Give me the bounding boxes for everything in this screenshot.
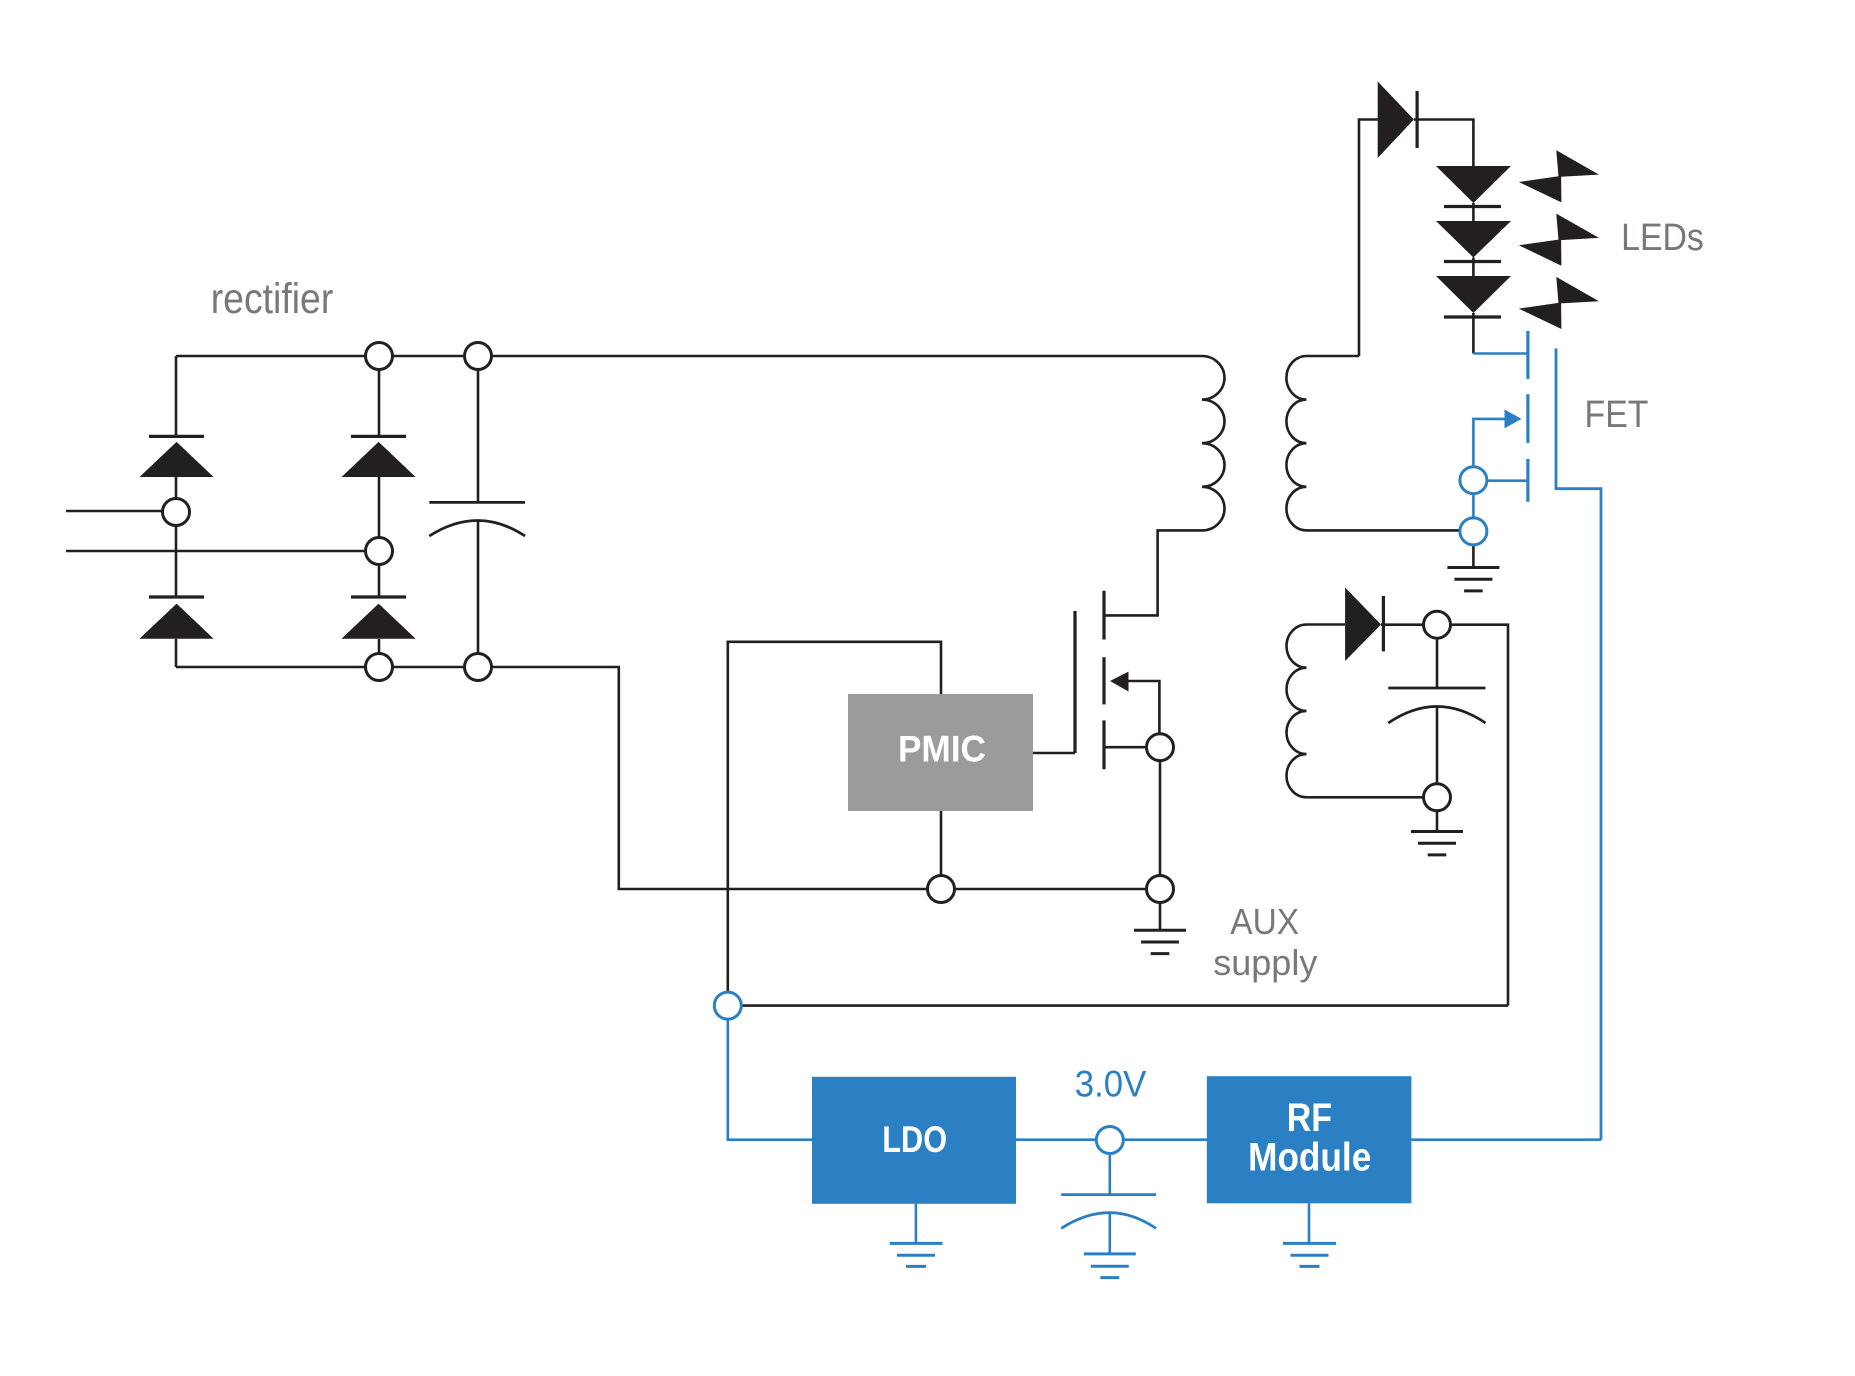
wire AC input line 1 (66, 510, 176, 513)
wire FET source node to ground (1472, 545, 1475, 568)
svg-text:supply: supply (1213, 942, 1317, 983)
diode D5 (LED rail rectifier) (1378, 82, 1417, 159)
wire MOSFET source to ground rail (1159, 761, 1162, 929)
capacitor C1 (bulk, after rectifier) (429, 502, 525, 536)
wire RF module to FET gate (blue) (1411, 1138, 1601, 1141)
node (top rail B) (465, 343, 492, 370)
FET Q2 source tick (1487, 479, 1528, 482)
wire left column mid (175, 477, 178, 597)
node (bottom rail A) (366, 654, 393, 681)
wire secondary top to diode (1359, 120, 1378, 357)
node (3.0V, blue) (1096, 1127, 1123, 1154)
node (AC input middle) (366, 538, 393, 565)
LED LED1 (1436, 166, 1511, 207)
LED LED3 (1436, 276, 1511, 317)
diode D4 (bridge bottom-right) (342, 597, 416, 639)
node (MOSFET source) (1147, 734, 1174, 761)
transistor Q1 source tick (1104, 746, 1148, 749)
diode D3 (bridge bottom-left) (140, 597, 214, 639)
wire blue node to LDO input (728, 1006, 812, 1140)
FET Q2 body arrow (1473, 410, 1521, 468)
wire top rail + primary winding L1 + drain lead (176, 356, 1225, 615)
wire rectifier bottom rail to PMIC ground rail (176, 667, 1160, 889)
wire diode D5 cathode to LED string (1414, 120, 1474, 167)
diode D2 (bridge top-right) (342, 436, 416, 477)
svg-text:FET: FET (1585, 392, 1649, 435)
transistor Q1 body arrow (1110, 672, 1159, 734)
FET Q2 channel segments (1526, 331, 1529, 502)
LED2 emission arrows (1519, 214, 1599, 266)
ground (AUX cap) (1411, 832, 1463, 855)
ground (3.0V cap, blue) (1084, 1254, 1136, 1278)
ground (FET source) (1447, 568, 1499, 591)
wire LDO output to RF module (blue) (1016, 1138, 1207, 1141)
node (bottom rail B) (465, 654, 492, 681)
node (AUX to LDO, blue) (714, 992, 741, 1019)
ground (RF module, blue) (1283, 1203, 1336, 1266)
wire AUX cap bottom to node (1436, 707, 1439, 797)
wire middle column mid (378, 477, 381, 597)
node (FET source, blue) (1460, 518, 1487, 545)
LDO box U2 (812, 1077, 1016, 1204)
diode D1 (bridge top-left) (140, 436, 214, 477)
LED3 emission arrows (1519, 277, 1599, 329)
wire AC input line 2 (66, 550, 379, 553)
node (FET gate, blue) (1460, 467, 1487, 494)
wire between FET source nodes (blue) (1472, 480, 1475, 531)
wire rectifier left column (175, 356, 178, 436)
svg-text:RF: RF (1287, 1094, 1332, 1139)
diode D6 (AUX rectifier) (1345, 588, 1383, 662)
svg-text:PMIC: PMIC (898, 728, 986, 770)
wire LED3 to FET drain (1472, 313, 1475, 354)
svg-text:3.0V: 3.0V (1075, 1063, 1147, 1104)
capacitor C3 (3.0V, blue) (1061, 1154, 1156, 1254)
LED LED2 (1436, 221, 1511, 262)
wire AUX bottom node to ground (1436, 811, 1439, 832)
wire PMIC gate drive (1033, 752, 1075, 755)
wire secondary winding L2 (1286, 356, 1460, 530)
capacitor C2 (AUX) (1388, 688, 1485, 723)
wire AUX supply output rail (728, 1004, 1508, 1007)
RF Module label (1248, 1094, 1371, 1179)
wire AUX diode cathode to AUX rail (1381, 625, 1508, 1006)
svg-text:rectifier: rectifier (211, 274, 334, 322)
node (AUX diode out) (1424, 611, 1451, 638)
wire LED1-LED2 (1472, 203, 1475, 221)
node (AUX winding bottom) (1424, 784, 1451, 811)
LED1 emission arrows (1519, 150, 1599, 202)
svg-text:LEDs: LEDs (1621, 215, 1704, 258)
wire AUX cap top (1436, 639, 1439, 688)
wire left column bottom (175, 639, 178, 667)
svg-text:LDO: LDO (882, 1119, 947, 1160)
node (PMIC bottom) (928, 876, 955, 903)
node (AC input left) (163, 499, 190, 526)
node (source ground rail) (1147, 876, 1174, 903)
FET Q2 gate bar and gate lead to RF module (1556, 348, 1601, 1139)
PMIC box U1 (848, 694, 1033, 811)
wire LED2-LED3 (1472, 258, 1475, 277)
wire middle column bottom (378, 639, 381, 667)
FET Q2 (blue) drain connector (1473, 352, 1528, 355)
wire AUX winding L3 (1287, 625, 1424, 798)
transistor Q1 channel segments (1102, 591, 1105, 770)
svg-text:Module: Module (1248, 1134, 1371, 1179)
wire capacitor column bottom (477, 521, 480, 667)
wire rectifier middle column (378, 356, 381, 436)
wire PMIC bottom pin (940, 811, 943, 889)
wire capacitor column top (477, 356, 480, 502)
wire PMIC feedback loop (728, 642, 941, 1006)
ground (PMIC/MOSFET source) (1134, 930, 1186, 953)
transistor Q1 gate bar (1073, 611, 1076, 753)
RF Module box U3 (1207, 1076, 1412, 1203)
node (top rail A) (366, 343, 393, 370)
svg-text:AUX: AUX (1230, 903, 1299, 942)
ground (LDO, blue) (890, 1204, 943, 1267)
